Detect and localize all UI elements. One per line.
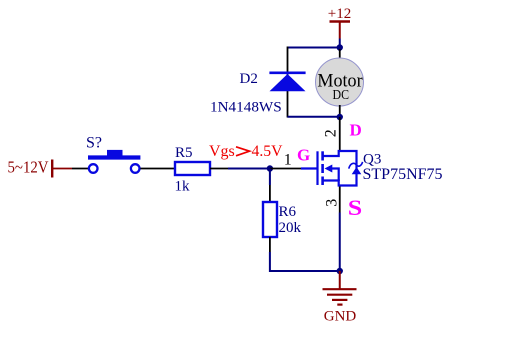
node junction bottom [337, 268, 343, 274]
svg-text:STP75NF75: STP75NF75 [363, 166, 443, 183]
svg-text:G: G [297, 146, 310, 165]
svg-text:S: S [348, 197, 362, 221]
motor top pin [339, 49, 341, 60]
wire from +12 to node [339, 39, 341, 48]
svg-text:4.5V: 4.5V [252, 143, 284, 160]
motor M1 body [316, 58, 364, 106]
R6 bottom pin [269, 237, 271, 252]
resistor R6 [263, 202, 277, 237]
pin number 3 [323, 199, 340, 207]
wire [228, 168, 270, 170]
wire bottom of diode branch [288, 116, 340, 118]
node junction gate [267, 165, 273, 171]
motor bottom pin [339, 105, 341, 117]
svg-text:1: 1 [284, 152, 292, 169]
svg-text:DC: DC [333, 88, 350, 103]
pin number 2 [323, 129, 340, 137]
svg-text:D: D [350, 121, 362, 140]
wire R6 to bottom node [270, 252, 340, 271]
resistor R5 [175, 162, 210, 175]
wire top of diode branch [288, 47, 340, 49]
diode D2 pins (vertical) [287, 47, 289, 118]
wire port to switch [72, 168, 89, 170]
switch S? symbol [88, 150, 140, 173]
svg-text:R5: R5 [175, 145, 193, 161]
diode D2 symbol [269, 73, 305, 91]
mosfet Q3 symbol [301, 151, 363, 186]
annotation Vgs>4.5V [209, 143, 283, 160]
svg-text:+12: +12 [328, 6, 351, 22]
label S [348, 197, 362, 221]
svg-text:5~12V: 5~12V [8, 158, 49, 177]
wire node down to R6 [269, 169, 271, 186]
node junction motor/drain [337, 114, 343, 120]
wire R5 to node [210, 168, 228, 170]
svg-text:2: 2 [323, 129, 340, 137]
source pin (pin 3) [339, 187, 341, 213]
svg-text:S?: S? [86, 134, 102, 151]
svg-text:1k: 1k [175, 179, 191, 195]
port 5~12V [8, 158, 73, 178]
wire node to motor top pin [339, 48, 341, 52]
svg-text:3: 3 [323, 199, 340, 207]
svg-text:D2: D2 [240, 71, 258, 87]
source wire down [339, 213, 341, 272]
ground GND [323, 271, 357, 325]
svg-text:Q3: Q3 [363, 151, 381, 167]
svg-text:GND: GND [324, 309, 357, 325]
drain wire (pin 2) [339, 117, 341, 151]
svg-text:1N4148WS: 1N4148WS [210, 99, 282, 116]
power port +12 [328, 6, 351, 39]
svg-text:20k: 20k [279, 220, 302, 236]
wire node to gate [270, 168, 301, 170]
svg-text:Vgs: Vgs [209, 143, 235, 160]
wire switch to R5 [140, 168, 175, 170]
R6 top pin [269, 185, 271, 202]
svg-text:R6: R6 [279, 204, 297, 220]
node junction top [337, 44, 343, 50]
